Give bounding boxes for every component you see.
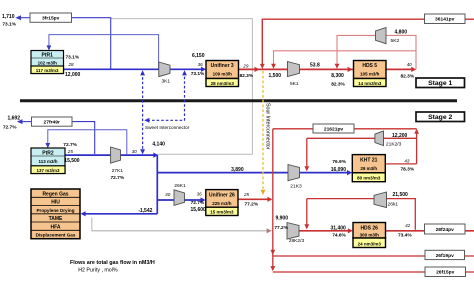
svg-text:3,890: 3,890 (231, 167, 244, 173)
svg-text:4,140: 4,140 (152, 142, 165, 148)
svg-text:53.8: 53.8 (310, 63, 320, 69)
svg-text:Sour Interconnector: Sour Interconnector (265, 103, 271, 150)
svg-text:36: 36 (197, 192, 203, 197)
svg-text:72.7%: 72.7% (191, 200, 205, 206)
svg-text:PtR1: PtR1 (41, 53, 53, 59)
svg-text:27fr49r: 27fr49r (44, 120, 60, 126)
svg-text:29: 29 (242, 64, 249, 69)
svg-text:137 m3/m3: 137 m3/m3 (36, 168, 60, 173)
svg-text:43: 43 (404, 159, 410, 164)
svg-text:42: 42 (405, 223, 411, 228)
svg-text:117 m3/m3: 117 m3/m3 (36, 68, 59, 73)
svg-text:12,000: 12,000 (65, 72, 81, 78)
svg-text:30: 30 (132, 149, 138, 154)
svg-text:82.3%: 82.3% (401, 74, 415, 80)
svg-text:29 m3/h: 29 m3/h (360, 166, 377, 171)
svg-text:3fr15pv: 3fr15pv (42, 16, 60, 22)
svg-text:1,692: 1,692 (7, 115, 20, 121)
svg-text:-1,542: -1,542 (138, 208, 152, 214)
svg-text:36141pv: 36141pv (435, 17, 455, 23)
svg-text:82.3%: 82.3% (240, 73, 254, 79)
svg-text:Propylene Drying: Propylene Drying (36, 208, 74, 213)
svg-text:72.7%: 72.7% (3, 125, 17, 131)
svg-text:8,300: 8,300 (331, 73, 344, 79)
svg-text:26K1: 26K1 (174, 183, 186, 189)
svg-text:HFA: HFA (51, 224, 61, 230)
svg-text:HDS 5: HDS 5 (362, 63, 377, 69)
svg-text:PtR2: PtR2 (42, 151, 54, 157)
svg-text:105 m3/h: 105 m3/h (360, 72, 380, 77)
svg-text:4,800: 4,800 (395, 30, 408, 36)
svg-text:30: 30 (165, 192, 171, 197)
svg-text:6,150: 6,150 (192, 53, 205, 59)
svg-text:Unifiner 3: Unifiner 3 (211, 63, 234, 69)
svg-text:82.3%: 82.3% (331, 82, 345, 88)
svg-text:72.7%: 72.7% (63, 142, 77, 148)
svg-text:HIU: HIU (51, 200, 60, 206)
svg-text:21K3: 21K3 (290, 184, 302, 190)
svg-text:31,400: 31,400 (331, 225, 347, 231)
svg-text:25: 25 (243, 192, 250, 197)
svg-text:Sweet Interconnector: Sweet Interconnector (145, 125, 190, 130)
svg-text:KHT 21: KHT 21 (360, 158, 377, 164)
svg-text:78.3%: 78.3% (401, 167, 415, 173)
svg-text:21621pv: 21621pv (324, 126, 344, 132)
svg-text:36: 36 (198, 62, 204, 67)
svg-text:15 nm3/m3: 15 nm3/m3 (210, 210, 234, 215)
svg-text:14 nm3/m3: 14 nm3/m3 (358, 81, 382, 86)
svg-text:Regen Gas: Regen Gas (42, 191, 68, 197)
svg-text:HDS 26: HDS 26 (360, 225, 378, 231)
svg-text:77.2%: 77.2% (274, 225, 288, 231)
svg-text:74.6%: 74.6% (332, 233, 346, 239)
svg-text:28K2/3: 28K2/3 (289, 238, 305, 244)
svg-text:Displacement Gas: Displacement Gas (36, 233, 76, 238)
svg-text:72.7%: 72.7% (110, 175, 124, 181)
svg-text:73.1%: 73.1% (2, 22, 16, 28)
svg-text:28f24pv: 28f24pv (436, 227, 454, 233)
svg-text:1,500: 1,500 (269, 73, 282, 79)
svg-text:28: 28 (68, 62, 75, 67)
svg-text:21K2/3: 21K2/3 (386, 142, 402, 148)
svg-text:40: 40 (407, 62, 413, 67)
svg-text:21,500: 21,500 (393, 192, 409, 198)
svg-text:5K2: 5K2 (391, 38, 400, 44)
svg-text:TAME: TAME (49, 216, 63, 222)
svg-text:25: 25 (67, 149, 74, 154)
svg-text:Flows are total gas flow in nM: Flows are total gas flow in nM3/H (70, 260, 155, 266)
svg-text:Stage 1: Stage 1 (428, 80, 452, 87)
svg-text:24 nm3/m3: 24 nm3/m3 (358, 242, 382, 247)
svg-text:15,500: 15,500 (64, 158, 80, 164)
svg-text:76.9%: 76.9% (332, 159, 346, 165)
svg-text:12,200: 12,200 (392, 133, 408, 139)
svg-text:77.2%: 77.2% (245, 201, 259, 207)
svg-text:Unifiner 26: Unifiner 26 (209, 192, 235, 198)
svg-text:5K1: 5K1 (290, 81, 299, 87)
svg-text:73.1%: 73.1% (66, 55, 80, 61)
svg-text:73.4%: 73.4% (398, 232, 412, 238)
svg-text:26k1: 26k1 (388, 201, 399, 207)
svg-text:27K1: 27K1 (112, 168, 124, 174)
svg-text:15,600: 15,600 (191, 207, 207, 213)
svg-text:80 nm3/m3: 80 nm3/m3 (357, 176, 381, 181)
svg-text:28 nm3/m3: 28 nm3/m3 (211, 81, 235, 86)
svg-text:16,090: 16,090 (331, 167, 347, 173)
svg-text:113 m3/h: 113 m3/h (38, 159, 57, 164)
svg-text:300 m3/h: 300 m3/h (360, 233, 380, 238)
svg-text:102 m3/h: 102 m3/h (38, 60, 58, 65)
svg-text:H2 Purity , mol%: H2 Purity , mol% (78, 268, 118, 274)
svg-text:1,710: 1,710 (2, 14, 15, 20)
svg-text:26f19pv: 26f19pv (436, 253, 454, 259)
svg-text:9,900: 9,900 (275, 216, 288, 222)
svg-text:26f15pv: 26f15pv (436, 270, 454, 276)
svg-text:3K1: 3K1 (161, 79, 170, 85)
svg-text:109 m3/h: 109 m3/h (213, 72, 233, 77)
svg-text:225 m3/h: 225 m3/h (212, 201, 232, 206)
svg-text:Stage 2: Stage 2 (428, 114, 452, 121)
svg-text:73.1%: 73.1% (191, 71, 205, 77)
